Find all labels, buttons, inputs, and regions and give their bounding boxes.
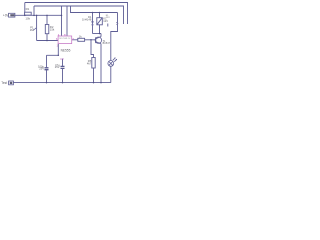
svg-text:3: 3 [72,37,74,41]
svg-text:10k: 10k [25,16,30,20]
svg-text:NE555: NE555 [61,48,71,52]
svg-text:+9V: +9V [3,13,10,17]
svg-text:4k7: 4k7 [87,62,92,66]
svg-text:25V: 25V [55,65,60,69]
svg-text:25V: 25V [39,67,44,71]
svg-text:Test: Test [1,81,7,85]
svg-text:15k: 15k [50,27,55,31]
svg-text:R1: R1 [26,7,30,11]
svg-text:C2: C2 [60,57,64,61]
svg-text:DIS THR CV: DIS THR CV [59,38,71,40]
svg-text:1M: 1M [30,28,35,32]
svg-text:12V: 12V [106,17,110,19]
svg-text:1N4148: 1N4148 [82,18,92,22]
svg-text:1k: 1k [79,35,83,39]
svg-text:12V: 12V [103,19,108,23]
svg-text:BC547: BC547 [103,42,111,45]
